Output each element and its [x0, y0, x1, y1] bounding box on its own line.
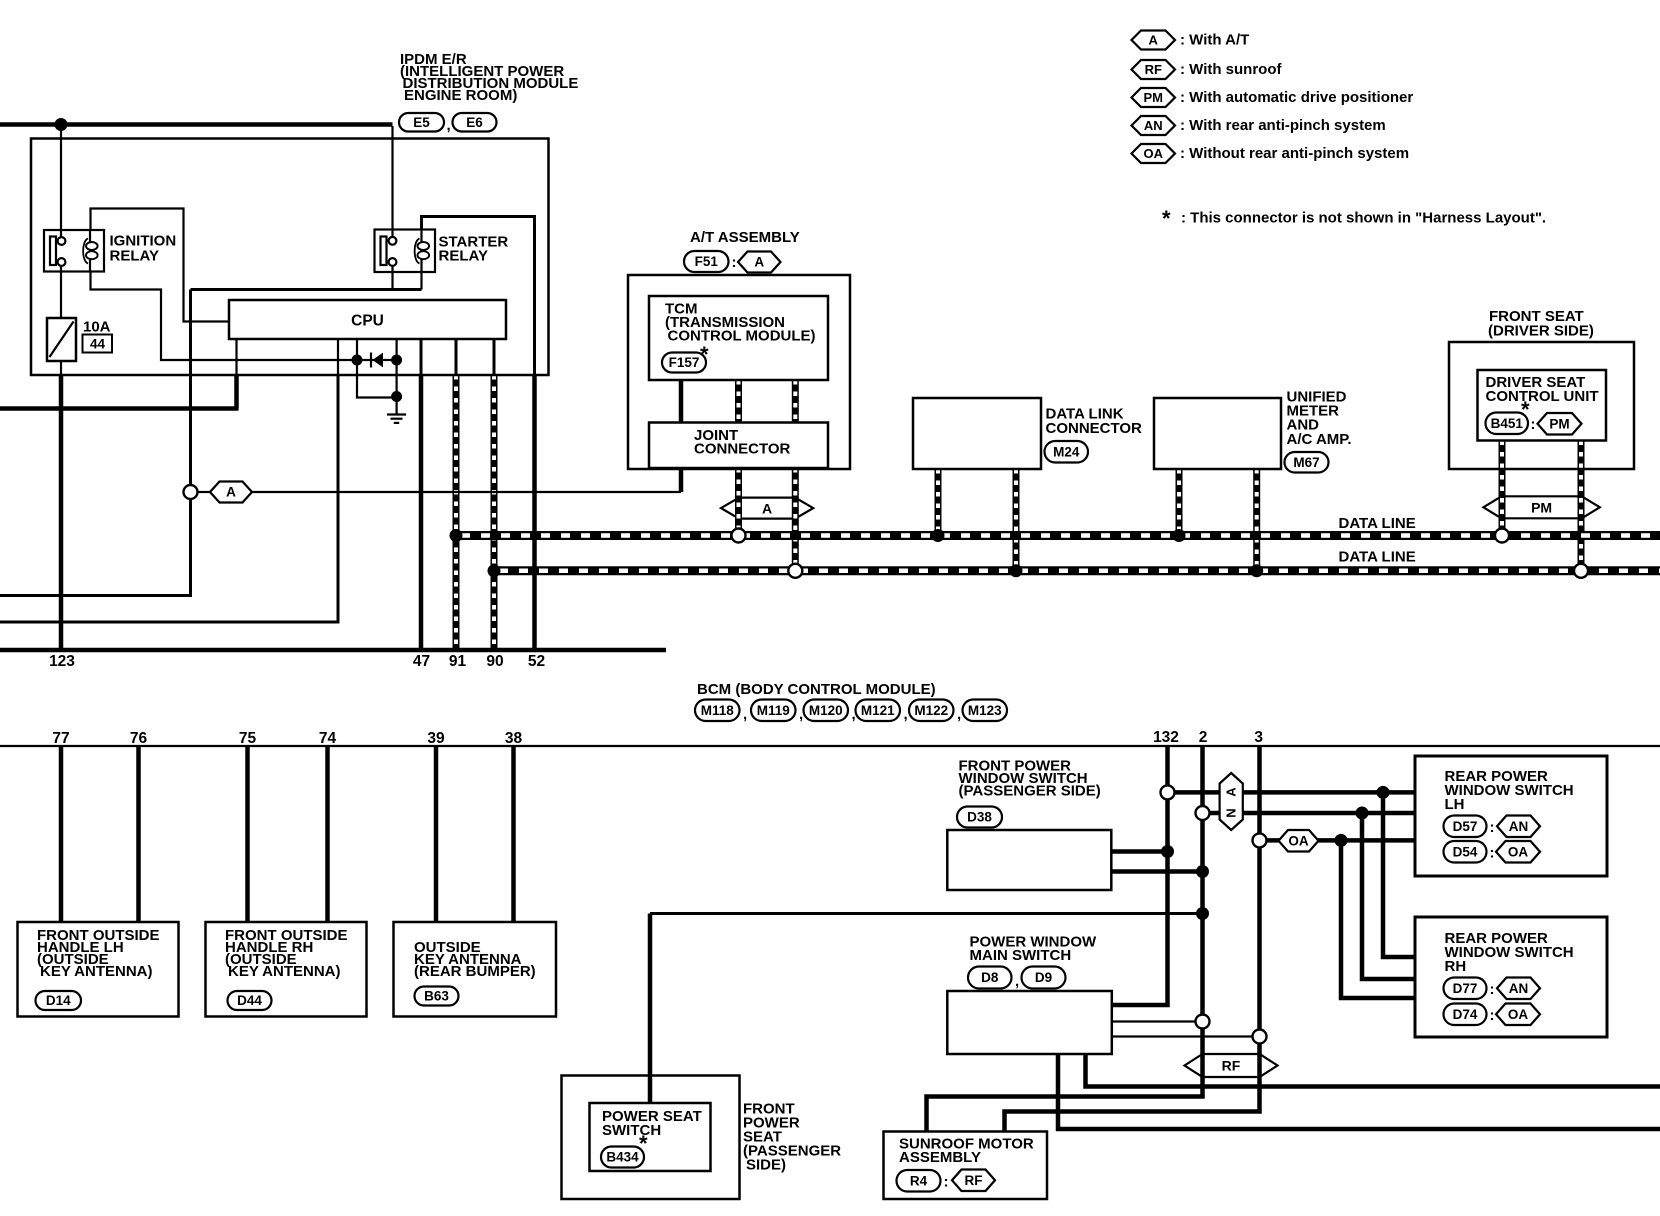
svg-text:RELAY: RELAY: [439, 248, 488, 265]
power seat switch outer box: [562, 1076, 740, 1200]
ignition relay coil loops: [86, 242, 98, 250]
hexagon OA tag for D74: [1496, 1004, 1540, 1026]
wire ignition coil top path into CPU: [91, 209, 230, 322]
wire pin 52 below IPDM (thick): [532, 375, 537, 650]
wire option A hexagon to joint connector: [252, 491, 681, 493]
A/T assembly outer box: [628, 275, 850, 469]
ignition relay pin circle bottom: [58, 258, 66, 266]
diode triangle: [373, 353, 384, 368]
svg-text:*: *: [1521, 397, 1530, 422]
wire meter to data line 1 (CAN): [1176, 469, 1183, 536]
hexagon AN (vertical) option tag: [1220, 773, 1243, 830]
wire pin 47 inside IPDM: [420, 339, 423, 375]
svg-text:M118: M118: [701, 703, 735, 718]
wire starter relay coil to pin 52: [422, 217, 535, 376]
CPU diode pin right: [396, 339, 398, 360]
connector B451: [1486, 413, 1529, 435]
diode junction dot right: [391, 355, 402, 366]
DATA LINE 1 bus (CAN): [456, 531, 1660, 540]
svg-text:B63: B63: [424, 989, 449, 1004]
svg-text:2: 2: [1199, 729, 1208, 746]
svg-text:*: *: [1162, 206, 1171, 231]
hexagon AN tag for D57: [1497, 816, 1540, 838]
wire front switch to line 2: [1112, 869, 1203, 874]
ground stub: [396, 397, 398, 415]
wire front switch to 132 line: [1112, 849, 1168, 854]
connector M122: [909, 700, 954, 722]
legend hexagon PM: [1132, 88, 1176, 107]
CPU pin wire x338: [337, 339, 339, 375]
wire starter output across to left leg: [191, 288, 422, 291]
wire TCM to joint connector right (CAN): [792, 380, 799, 423]
data link connector box: [913, 398, 1041, 469]
junction dot front switch upper: [1161, 845, 1174, 858]
CPU diode pin left: [356, 339, 358, 360]
wire pin 77 to handle LH: [59, 746, 64, 922]
diode junction dot left: [352, 355, 363, 366]
DATA LINE 2 bus (CAN): [494, 566, 1660, 575]
wire feed junction to ignition relay pin: [60, 126, 62, 239]
hexagon RF tag for R4: [952, 1170, 995, 1192]
starter relay box: [375, 230, 436, 273]
wire pin 47 below IPDM (thick): [419, 375, 424, 650]
small hexagon A on option line: [210, 482, 252, 503]
thick exit wire turning left at y408: [0, 375, 239, 409]
connector E5: [399, 113, 444, 132]
svg-text:(DRIVER SIDE): (DRIVER SIDE): [1488, 323, 1594, 340]
svg-text::: :: [944, 1174, 949, 1191]
svg-text:D44: D44: [237, 993, 262, 1008]
svg-text:3: 3: [1254, 729, 1263, 746]
ignition relay box: [44, 230, 104, 272]
svg-text:,: ,: [447, 117, 451, 134]
wire seat unit to data line 1 (CAN): [1499, 441, 1506, 536]
hexagon OA option tag: [1279, 830, 1319, 852]
svg-text:,: ,: [904, 706, 908, 723]
wire pin 91 CAN (dashed): [453, 375, 460, 650]
svg-text:44: 44: [90, 337, 106, 352]
svg-text:ASSEMBLY: ASSEMBLY: [899, 1149, 981, 1166]
connector F157: [662, 353, 706, 373]
svg-text:A: A: [754, 255, 764, 270]
connector D8: [968, 967, 1012, 989]
svg-text:52: 52: [528, 653, 545, 670]
hexagon OA tag for D54: [1496, 841, 1540, 863]
connector D14: [36, 991, 82, 1010]
wire main switch bottom right to edge (y1086): [1086, 1054, 1660, 1087]
svg-text:F157: F157: [669, 355, 700, 370]
wire exit at y596 to left edge: [0, 594, 192, 597]
svg-text::: :: [1490, 1007, 1495, 1024]
svg-text:: With sunroof: : With sunroof: [1180, 61, 1283, 78]
svg-text:M119: M119: [757, 703, 790, 718]
svg-text:M122: M122: [914, 703, 948, 718]
svg-text:D9: D9: [1035, 970, 1052, 985]
svg-text:N: N: [1224, 808, 1239, 817]
big hexagon PM (drive positioner option): [1483, 496, 1599, 518]
wire main switch bottom left to edge (y1129): [1058, 1054, 1660, 1129]
svg-text:DATA LINE: DATA LINE: [1339, 515, 1416, 532]
driver seat control unit box: [1478, 370, 1607, 441]
rear power window switch LH box: [1415, 756, 1607, 876]
svg-text:38: 38: [505, 730, 523, 747]
outside key antenna box: [394, 922, 557, 1017]
open circle option A on exit wire: [184, 485, 198, 499]
svg-text:10A: 10A: [83, 319, 111, 336]
svg-text::: :: [1490, 845, 1495, 862]
fuse 10A 44 symbol: [47, 318, 76, 361]
legend hexagon RF: [1132, 60, 1176, 79]
connector D74: [1444, 1004, 1487, 1026]
svg-text:M24: M24: [1053, 444, 1080, 459]
rear power window switch RH box: [1415, 917, 1607, 1037]
connector D44: [228, 991, 272, 1010]
svg-text:B451: B451: [1491, 416, 1524, 431]
junction dot DLC on data line 2: [1010, 564, 1023, 577]
svg-text:AN: AN: [1144, 118, 1163, 133]
connector R4: [897, 1170, 941, 1192]
open circle on line 3 at main switch: [1253, 1030, 1267, 1044]
junction dot meter on data line 2: [1250, 564, 1263, 577]
wire pin 75 to handle RH: [245, 746, 250, 922]
wire diode right pin down to ground junction: [396, 360, 398, 398]
connector D9: [1022, 967, 1066, 989]
big hexagon RF (sunroof option): [1185, 1054, 1278, 1077]
svg-text:OA: OA: [1508, 1007, 1529, 1022]
svg-text:CONTROL UNIT: CONTROL UNIT: [1486, 388, 1599, 405]
svg-text:AN: AN: [1509, 981, 1529, 996]
svg-text:76: 76: [130, 730, 148, 747]
svg-text:A: A: [1149, 33, 1159, 48]
open circle joint connector on data line 2: [788, 564, 802, 578]
front power window switch box: [947, 830, 1111, 890]
svg-text:(REAR BUMPER): (REAR BUMPER): [414, 963, 536, 980]
legend hexagon OA: [1132, 144, 1176, 163]
svg-text:E6: E6: [466, 115, 483, 130]
wire left leg below IPDM: [189, 375, 192, 596]
big hexagon A (A/T option, below joint connector): [721, 498, 813, 519]
wire pin 91 inside IPDM: [455, 339, 458, 375]
svg-text:D38: D38: [967, 810, 992, 825]
svg-text:CONNECTOR: CONNECTOR: [1046, 420, 1143, 437]
open circle on line 3 upper: [1253, 833, 1267, 847]
svg-text:SWITCH: SWITCH: [602, 1122, 661, 1139]
svg-text:OA: OA: [1288, 833, 1309, 848]
wire TCM to joint connector mid (CAN): [735, 380, 742, 423]
fuse number box 44: [83, 335, 113, 353]
TCM box: [649, 296, 828, 380]
hexagon PM tag for B451: [1538, 413, 1582, 435]
wire pin 76 to handle LH: [136, 746, 141, 922]
connector B434: [601, 1147, 644, 1168]
svg-text:M120: M120: [809, 703, 843, 718]
connector M67: [1285, 452, 1329, 473]
svg-text:75: 75: [239, 730, 257, 747]
svg-text:: With automatic drive positio: : With automatic drive positioner: [1180, 89, 1413, 106]
svg-text:A: A: [762, 501, 772, 517]
svg-text::: :: [1490, 981, 1495, 998]
wire drop to rear RH middle: [1362, 813, 1415, 979]
diode cathode bar: [370, 353, 372, 368]
svg-text:PM: PM: [1144, 90, 1164, 105]
wire drop to rear RH bottom: [1341, 840, 1415, 998]
svg-text:A: A: [1224, 787, 1239, 797]
svg-text:OA: OA: [1144, 146, 1164, 161]
open circle on line 2 at main switch: [1196, 1015, 1210, 1029]
wire joint connector left leg (thick): [679, 468, 684, 492]
junction dot power seat on line 2: [1196, 907, 1209, 920]
BCM bottom bus line: [0, 745, 1660, 747]
BCM top bus line: [0, 648, 666, 653]
ground symbol: [387, 413, 406, 415]
svg-text:MAIN SWITCH: MAIN SWITCH: [970, 947, 1072, 964]
junction dot meter on data line 1: [1173, 529, 1186, 542]
wire pin 74 to handle RH: [325, 746, 330, 922]
front outside handle LH box: [18, 922, 179, 1017]
svg-text:CONNECTOR: CONNECTOR: [694, 441, 791, 458]
junction dot battery feed: [55, 118, 68, 131]
wire BCM pin 132 down into main switch: [1112, 746, 1168, 1005]
svg-text:91: 91: [449, 653, 467, 670]
wire TCM to joint connector left (solid): [679, 380, 684, 423]
wire ignition coil bottom path to diode line: [91, 272, 358, 361]
connector D54: [1444, 841, 1487, 863]
open circle seat unit on data line 1: [1495, 529, 1509, 543]
legend hexagon AN: [1132, 116, 1176, 135]
svg-text:RF: RF: [965, 1173, 983, 1188]
IPDM E/R enclosure box: [31, 139, 549, 376]
svg-text:,: ,: [957, 706, 961, 723]
connector F51: [684, 251, 729, 272]
battery feed wire (thick): [0, 122, 393, 127]
connector D77: [1444, 978, 1487, 1000]
starter relay coil left arc: [415, 239, 420, 264]
open circle seat unit on data line 2: [1574, 564, 1588, 578]
wire main switch to line 2 (thin): [1112, 1020, 1196, 1022]
connector E6: [453, 113, 497, 132]
wire joint connector to data line 2 (CAN): [792, 468, 799, 571]
wire option AN lower to rear switch LH: [1209, 811, 1415, 816]
svg-text:: With rear anti-pinch system: : With rear anti-pinch system: [1180, 117, 1386, 134]
svg-text:RELAY: RELAY: [110, 248, 159, 265]
wire DLC to data line 1 (CAN): [935, 469, 942, 536]
svg-text:*: *: [700, 342, 709, 367]
connector M121: [856, 700, 901, 722]
svg-text:90: 90: [486, 653, 503, 670]
wire starter relay coil bottom stub: [420, 272, 422, 290]
open circle on line 2 upper: [1196, 806, 1210, 820]
connector M123: [963, 700, 1008, 722]
svg-text:F51: F51: [695, 254, 719, 269]
svg-text:E5: E5: [413, 115, 430, 130]
svg-text:: This connector is not shown: : This connector is not shown in "Harnes…: [1181, 210, 1546, 227]
svg-text:123: 123: [49, 653, 75, 670]
wire fuse to IPDM bottom: [60, 361, 62, 375]
ignition relay pin circle top: [58, 237, 66, 245]
power seat switch inner box: [590, 1103, 711, 1171]
wire main switch to line 3 (thin): [1112, 1035, 1253, 1037]
connector D38: [957, 807, 1002, 828]
svg-text:74: 74: [319, 730, 337, 747]
svg-text:RF: RF: [1222, 1058, 1241, 1074]
svg-text:B434: B434: [606, 1150, 639, 1165]
svg-text:A/C AMP.: A/C AMP.: [1287, 431, 1352, 448]
svg-text:A/T ASSEMBLY: A/T ASSEMBLY: [690, 229, 800, 246]
connector M120: [804, 700, 849, 722]
svg-text:RF: RF: [1145, 62, 1162, 77]
svg-text:77: 77: [52, 730, 69, 747]
junction dot DLC on data line 1: [932, 529, 945, 542]
ignition relay coil left arc: [83, 239, 88, 264]
wire pin 39 to key antenna: [434, 746, 439, 922]
wire DLC to data line 2 (CAN): [1013, 469, 1020, 571]
wire pin 38 to key antenna: [511, 746, 516, 922]
svg-text::: :: [1490, 819, 1495, 836]
hexagon A tag for F51: [738, 252, 781, 273]
svg-text:M123: M123: [968, 703, 1002, 718]
svg-text:,: ,: [799, 706, 803, 723]
starter relay coil lead: [420, 230, 422, 273]
wire pin 90 CAN (dashed): [491, 375, 498, 650]
legend hexagon A: [1132, 31, 1176, 50]
svg-text:R4: R4: [910, 1173, 928, 1188]
svg-text:,: ,: [743, 706, 747, 723]
wire exit below IPDM to left edge at y622: [337, 375, 340, 622]
svg-text:132: 132: [1153, 729, 1179, 746]
wire left leg inside IPDM: [189, 290, 192, 376]
JOINT CONNECTOR box: [649, 423, 828, 469]
power window main switch box: [947, 991, 1112, 1054]
junction dot AN upper on drop wire: [1377, 786, 1390, 799]
connector M118: [695, 700, 740, 722]
ignition relay coil lead: [89, 230, 91, 272]
junction dot OA on drop wire: [1335, 834, 1348, 847]
svg-text:M67: M67: [1293, 455, 1319, 470]
ignition relay contact bar: [50, 237, 56, 266]
front outside handle RH box: [206, 922, 367, 1017]
svg-text:D14: D14: [46, 993, 71, 1008]
wire joint connector to data line 1 (CAN): [735, 468, 742, 536]
wire drop to rear RH top: [1383, 792, 1415, 957]
wire option OA to rear switch LH: [1266, 838, 1415, 843]
svg-text::: :: [1531, 416, 1536, 433]
wire power seat switch to line 2: [650, 912, 1203, 915]
connector M119: [751, 700, 796, 722]
svg-text:D77: D77: [1453, 981, 1478, 996]
svg-text:: Without rear anti-pinch syst: : Without rear anti-pinch system: [1180, 145, 1409, 162]
svg-text:PM: PM: [1531, 500, 1552, 516]
svg-text:D54: D54: [1453, 844, 1478, 859]
svg-text:DATA LINE: DATA LINE: [1339, 549, 1416, 566]
svg-text:RH: RH: [1445, 958, 1467, 975]
svg-text:KEY ANTENNA): KEY ANTENNA): [228, 963, 341, 980]
CPU box: [229, 300, 506, 339]
junction dot AN lower on drop wire: [1356, 807, 1369, 820]
svg-text:AN: AN: [1509, 819, 1529, 834]
starter relay coil loops: [418, 242, 430, 250]
wire option AN upper to rear switch LH: [1174, 790, 1415, 795]
svg-text:CPU: CPU: [351, 313, 384, 330]
wire ignition relay to fuse: [60, 265, 62, 318]
svg-text:(PASSENGER SIDE): (PASSENGER SIDE): [959, 783, 1101, 800]
open circle joint connector on data line 1: [732, 529, 746, 543]
svg-text:M121: M121: [861, 703, 895, 718]
svg-text:A: A: [226, 485, 236, 500]
svg-text:D74: D74: [1453, 1007, 1478, 1022]
open circle on 132 line: [1161, 785, 1175, 799]
svg-text:*: *: [639, 1131, 648, 1156]
svg-text:OA: OA: [1508, 844, 1529, 859]
svg-text:D8: D8: [981, 970, 999, 985]
connector D57: [1444, 816, 1487, 838]
svg-text:39: 39: [427, 730, 445, 747]
svg-text:,: ,: [1015, 973, 1019, 990]
wire feed to starter relay pin: [391, 126, 393, 238]
wire BCM pin 3 down across to sunroof (line 3): [1005, 746, 1260, 1132]
wire meter to data line 2 (CAN): [1253, 469, 1260, 571]
svg-text:BCM (BODY CONTROL MODULE): BCM (BODY CONTROL MODULE): [697, 681, 936, 698]
connector B63: [415, 987, 459, 1006]
wire diode loop to ground: [357, 360, 397, 398]
sunroof motor assembly box: [884, 1132, 1048, 1200]
diode wire: [357, 359, 397, 361]
starter relay pin circle bottom: [389, 258, 397, 266]
svg-text:PM: PM: [1549, 416, 1569, 431]
junction dot front switch lower: [1196, 865, 1209, 878]
wire starter relay contact output: [391, 266, 393, 290]
svg-text:LH: LH: [1445, 796, 1465, 813]
svg-text:SIDE): SIDE): [746, 1157, 786, 1174]
svg-text:: With A/T: : With A/T: [1180, 32, 1249, 49]
hexagon AN tag for D77: [1497, 978, 1540, 1000]
wire pin 123 (thick): [59, 375, 64, 650]
junction dot pin90 on data line 2: [488, 564, 501, 577]
svg-text:ENGINE ROOM): ENGINE ROOM): [404, 87, 517, 104]
svg-text:CONTROL MODULE): CONTROL MODULE): [668, 328, 816, 345]
svg-text:D57: D57: [1453, 819, 1478, 834]
CPU pin wire to lower-left exit: [235, 339, 237, 375]
wire option A from circle to hexagon: [197, 491, 210, 493]
svg-text:47: 47: [413, 653, 430, 670]
wire BCM pin 2 down across to sunroof (line 2): [927, 746, 1203, 1132]
ground junction dot: [391, 391, 402, 402]
front seat outer box: [1449, 342, 1634, 469]
starter relay pin circle top: [389, 237, 397, 245]
junction dot pin91 on data line 1: [450, 529, 463, 542]
svg-text:,: ,: [852, 706, 856, 723]
wire pin 90 inside IPDM: [493, 339, 496, 375]
connector M24: [1045, 441, 1089, 463]
svg-text:KEY ANTENNA): KEY ANTENNA): [40, 963, 153, 980]
unified meter and A/C amp box: [1154, 398, 1281, 469]
starter relay contact bar: [381, 237, 387, 266]
svg-text::: :: [732, 254, 737, 271]
wire seat unit to data line 2 (CAN): [1578, 441, 1585, 571]
